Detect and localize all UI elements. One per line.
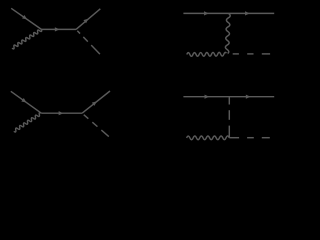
- fermion line top: [183, 96, 274, 98]
- incoming fermion line e-: [11, 8, 41, 29]
- exchanged scalar (vertical dashed): [228, 97, 230, 105]
- incoming photon (wavy): [187, 136, 230, 140]
- incoming photon (wavy): [187, 52, 227, 56]
- arrow on incoming fermion: [22, 15, 27, 19]
- incoming photon (wavy): [14, 113, 42, 132]
- arrow on outgoing fermion: [92, 101, 97, 106]
- outgoing fermion line: [82, 91, 110, 113]
- arrow left on fermion: [205, 95, 210, 99]
- arrow on propagator: [55, 27, 60, 31]
- fermion line top: [183, 12, 274, 14]
- outgoing scalar (dashed): [84, 115, 89, 119]
- fermion propagator: [41, 112, 82, 114]
- incoming fermion line: [11, 91, 42, 113]
- outgoing scalar (dashed): [229, 137, 239, 139]
- incoming photon (wavy): [12, 30, 42, 49]
- arrow right on fermion: [245, 11, 250, 15]
- outgoing scalar (dashed): [233, 53, 239, 55]
- arrow on propagator: [59, 111, 64, 115]
- outgoing scalar (dashed): [77, 31, 80, 34]
- arrow right on fermion: [246, 95, 251, 99]
- outgoing fermion line: [76, 9, 100, 30]
- fermion propagator: [42, 28, 76, 30]
- arrow on incoming fermion: [21, 98, 26, 103]
- vertex knot (photon junction): [226, 53, 228, 55]
- arrow left on fermion: [204, 11, 209, 15]
- arrow on outgoing fermion: [83, 19, 88, 24]
- exchanged photon (vertical wavy): [225, 13, 230, 54]
